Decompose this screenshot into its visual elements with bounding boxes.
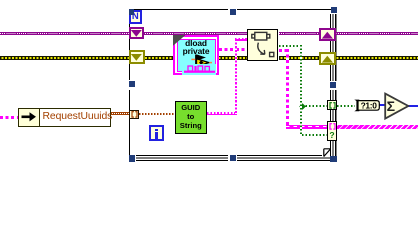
shift register: left olive xyxy=(129,50,145,64)
for-loop left border xyxy=(129,9,130,81)
wire: green boolean to [] tunnel xyxy=(302,105,327,107)
wire: purple cluster-array wire left segment xyxy=(0,32,248,36)
wire: green boolean from variant box xyxy=(279,45,303,47)
wire: magenta string jog into variant box xyxy=(235,38,248,41)
wire: magenta string vertical up xyxy=(235,39,237,114)
node: GUID to String icon xyxy=(175,101,207,134)
variant icon glyph xyxy=(252,32,274,56)
wire: green boolean lower branch to ? tunnel xyxy=(302,134,327,136)
handle backers (white gaps in borders) xyxy=(128,80,136,90)
wire: magenta string wavy from GUID icon xyxy=(207,112,237,115)
dload text xyxy=(173,39,219,55)
wire: pink cluster dload to variant xyxy=(219,48,248,51)
dload flag emblem xyxy=(186,52,214,76)
wire: error cluster wire right segment xyxy=(279,56,418,60)
wire: green boolean tunnel to ?1:0 xyxy=(337,105,355,107)
for-loop right border triple lines xyxy=(330,14,337,156)
wire: rust dotted string tunnel to GUID icon xyxy=(139,113,176,115)
wire: purple cluster-array wire right segment xyxy=(279,32,418,36)
node: ?1:0 boolean to 0,1 xyxy=(351,96,383,114)
wire: blue int output of sigma xyxy=(408,105,418,107)
dload corner triangle xyxy=(173,35,189,49)
wire: blue int from ?1:0 to sigma xyxy=(379,104,386,106)
node: variant VI icon box xyxy=(247,29,278,61)
dload bottom magenta pattern xyxy=(182,64,216,75)
wire: error dashes right xyxy=(279,57,418,59)
node: sigma add array elements xyxy=(382,91,412,122)
wire: error cluster wire left segment xyxy=(0,56,248,60)
svg-text:Σ: Σ xyxy=(387,98,395,114)
shift register: right olive xyxy=(319,52,336,66)
fold corner bottom-right of loop xyxy=(322,148,330,158)
wire: pink cluster vertical down xyxy=(286,49,289,129)
shift register: left purple xyxy=(129,27,145,40)
wire: error dashes left xyxy=(0,57,248,59)
wire: green boolean vertical xyxy=(300,45,302,135)
wire: rust string-array woven RequestUuuids to tunnel xyxy=(111,112,130,116)
for-loop bottom border triple lines xyxy=(136,155,330,161)
selection handles (navy) xyxy=(129,9,135,15)
tunnel: right pair [] and ? xyxy=(327,121,337,141)
wire: pink array hatched outside loop xyxy=(337,125,418,130)
for-loop left border lower segment xyxy=(129,90,130,156)
node: RequestUuuids unbundle xyxy=(18,108,112,127)
junction green xyxy=(299,103,306,110)
node: dload private VI icon xyxy=(173,35,219,75)
wire: purple dots left xyxy=(0,33,248,34)
shift register: right purple xyxy=(319,28,336,42)
for-loop top border xyxy=(130,9,332,10)
node: iteration terminal i xyxy=(149,125,164,142)
svg-text:?1:0: ?1:0 xyxy=(361,100,378,110)
tunnel: right green [] xyxy=(327,100,337,110)
node: N count terminal xyxy=(129,10,143,25)
wire: purple dots right xyxy=(279,33,418,34)
wire: pink array horizontal inside loop xyxy=(286,125,327,129)
wire: pink dashed cluster into RequestUuuids xyxy=(0,116,18,119)
wire: pink cluster variant output horizontal xyxy=(279,49,289,52)
tunnel: auto-index left [] xyxy=(129,110,139,120)
